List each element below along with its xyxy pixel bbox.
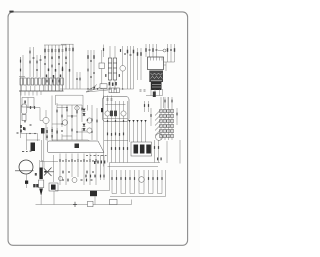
arrow tip down [39,189,43,197]
wire tr vert d [156,44,158,57]
electrolytic C17 [21,104,27,114]
resistor R12 [79,72,81,89]
IC U1 [148,57,164,70]
label box A [100,84,107,88]
diode D5 [83,124,86,127]
wire mid horiz [27,139,41,141]
wire antenna second [22,55,24,78]
coil L1 box [99,63,105,69]
resistor R57 [29,61,30,64]
resistor R70 [105,74,106,77]
resistor R14 [93,55,94,59]
wire fan c [86,90,108,92]
capacitor C13 [149,49,151,50]
wire center vert c [93,50,95,89]
capacitor C4 [55,45,57,91]
transistor Q6 [121,111,126,116]
transistor Q3 [62,120,67,125]
resistor R59 [103,45,105,58]
wire tie down [43,162,45,170]
module enclosure outline [56,95,84,110]
wire mid stub [27,107,40,109]
speck pairs upper [46,129,57,138]
resistor R63 [90,175,91,178]
wire cluster vert i [91,105,93,140]
wire cluster vert a [51,96,53,141]
output comb vert 11 [157,170,159,194]
label box B [109,88,120,93]
capacitor C12 [144,90,146,91]
connector box J2 [110,200,118,205]
node tie top2 [61,43,74,45]
wire dual drop a [41,140,43,162]
diode D2 [34,106,35,109]
pot VR1 dark core [51,185,56,190]
node tie row [106,104,126,106]
resistor R56 [62,67,63,70]
wire main bus [60,88,134,90]
resistor R67 [176,113,177,116]
capacitor C37 [62,179,64,180]
speck group mid bottom [94,161,105,165]
electrolytic C38 dark [153,92,156,98]
output comb vert 4 [125,170,127,194]
speck pair right [157,158,162,161]
resistor R27 [71,129,72,132]
row lower small d [92,171,94,172]
lamp LP1 [163,49,166,52]
resistor R18 [145,48,146,52]
capacitor C5 [62,45,64,91]
wire antenna tie [19,76,25,78]
wire comb right up [165,170,167,197]
dial pointer dark [75,144,80,149]
resistor R11 [72,44,74,89]
wire sw vert c [158,140,160,163]
wire cluster vert d [66,105,68,140]
wire cluster vert f [76,105,78,140]
capacitor C15 [170,49,172,50]
wire left bus down [20,91,22,138]
resistor R62 [85,175,86,178]
transistor Q9 [59,177,63,181]
wire sw vert b [154,140,156,163]
resistor R8 [52,80,53,83]
speaker SP1 stem [26,175,28,181]
capacitor C14 [156,49,158,50]
capacitor C28 [44,63,46,64]
resistor R50 [161,177,162,180]
wire tick [103,96,105,100]
resistor R55 [51,65,52,68]
switch SW1 segment 3 [146,145,151,154]
K1 divider [27,98,29,108]
jack node dot [44,171,46,173]
wire tr vert c [152,44,154,57]
row upper small f [89,160,91,161]
junction dots bus2 [109,88,123,89]
transistor Q5 [105,111,110,116]
wire drop b2 [107,116,109,162]
wire fan b [86,87,102,92]
resistor R61 [67,179,68,182]
output comb vert 10 [152,170,154,194]
wire ground bus [19,90,64,92]
wire drop b [107,96,109,111]
wire cluster vert c [61,105,63,127]
capacitor C2 [40,55,42,77]
transformer T2 windings [151,73,163,87]
wire U1 to T2 [164,64,167,66]
junction dots elbow [29,133,35,134]
transistor Q2 [43,117,49,123]
resistor R66 [171,100,172,103]
row upper small b [65,160,67,161]
resistor R29 [81,108,82,111]
resistor R51 [100,175,101,178]
switch block SW1 [131,142,152,156]
output comb vert 7 [138,170,140,194]
node tie top [44,44,66,46]
wire tr vert f [170,44,172,62]
wire link h2 [52,123,62,125]
resistor R32 [115,147,116,150]
capacitor C22 [71,116,73,117]
wire right drop a [163,97,165,108]
wire vert f [133,46,135,89]
terminal mark dark [101,108,103,112]
wire right riser [131,200,133,205]
resistor R36 [111,147,112,150]
resistor R13 [87,55,88,59]
wire link h3 [67,115,77,117]
junction dots mesh [61,107,92,133]
row lower small a [62,171,63,174]
terminal blob pair b [36,184,38,187]
output comb vert 1 [111,170,113,194]
capacitor C33 [90,76,92,77]
row upper small d [77,160,79,161]
IF transformer T1 [108,58,116,80]
resistor R20 [167,48,168,52]
diode D1 [30,106,31,109]
resistor R23 [24,128,25,131]
wire q2 base [39,108,41,121]
resistor R2 [33,47,35,77]
row upper small e [83,159,84,162]
wire bus joint left [109,163,111,191]
resistor R17 [133,50,134,54]
resistor R60 [20,69,21,72]
row upper small c [71,159,72,162]
wire tr vert g [174,44,176,62]
resistor R64 [94,175,95,178]
resistor R25 [61,115,62,118]
wire stem tail [26,184,28,188]
resistor R24 [56,110,57,113]
resistor R5 [51,45,53,91]
capacitor C25 [91,179,93,180]
row upper small a [59,159,60,162]
border frame [8,12,188,245]
wire cluster top tie [57,104,82,106]
resistor R10 [65,44,67,89]
diode D6 [83,128,86,131]
resistor R71 [119,74,120,77]
transformer T2 core upper [149,71,163,83]
wire drop d [115,101,117,163]
wire tr vert e [167,44,169,62]
capacitor C16 [153,92,155,93]
electrolytic C27 dark [114,111,117,117]
capacitor C31 [36,69,38,70]
resistor R16 [127,50,128,54]
resistor R47 [148,177,149,180]
diode D3 [83,109,86,112]
resistor R30 [91,119,92,122]
resistor R49 [157,177,158,180]
speck row mid drops [107,133,124,136]
wire cluster bottom bus [52,139,88,141]
resistor R53 [144,101,146,112]
wire vert d [127,46,129,89]
jack X contacts [44,168,54,177]
wire cluster vert b [56,103,58,140]
resistor group RN1 [44,56,66,59]
capacitor C32 [93,72,95,73]
connector J1 pin row [20,78,63,85]
comb bottom loops [112,193,162,195]
row small transistor Q7 [72,178,77,183]
wire tr vert a [145,44,147,57]
resistor R41 [111,177,112,180]
wire link h4 [77,131,87,133]
capacitor C7 [76,72,78,89]
capacitor C10 [130,54,132,55]
capacitor C35 [111,99,113,100]
wire cluster vert g [81,105,83,122]
relay stack S1 [160,110,174,138]
fuse mark plus [73,202,77,207]
wire cluster vert h [87,105,89,111]
resistor R21 [174,48,175,52]
wire stub pairs [47,127,57,141]
wire T1 leads [110,46,115,89]
junction dots row [107,120,124,121]
capacitor C1 [29,47,31,77]
resistor R39 [158,146,159,149]
wire bar down [40,196,42,205]
junction dots rows [62,160,93,161]
resistor R4 [44,45,46,91]
resistor R22 [24,120,25,123]
wire cluster vert e [71,105,73,140]
speck pair left [35,173,37,176]
wire left elbow [21,134,38,142]
ceramic cap C36 [22,115,26,121]
wire drop e [119,101,121,163]
wire cluster vert j [96,108,98,140]
electrolytic C26 dark [110,111,113,117]
resistor R33 [119,147,120,150]
speaker SP1 circle [19,160,33,174]
resistor R15 [120,49,121,52]
capacitor C9 [124,53,126,54]
transformer T2 core lower [151,82,162,90]
wire cluster jog g [81,128,83,140]
wire row base [104,118,128,120]
transistor Q8 [139,177,145,183]
ladder verts right of rows [101,155,105,180]
resistor R52 [103,175,104,178]
wire L1 leads [101,50,103,89]
resistor R42 [116,177,117,180]
wire vert e [130,46,132,89]
resistor R44 [125,177,126,180]
wire long drop a [103,89,105,167]
resistor R58 [87,69,88,72]
row lower small c [86,171,87,174]
output comb vert 2 [116,170,118,194]
output comb vert 3 [120,170,122,194]
resistor R1 [20,57,22,63]
wire link h5 [62,135,72,137]
wire drop c [111,96,113,163]
wire t3 down [94,196,96,204]
wire right col [176,108,178,125]
wire center vert a [87,50,89,89]
resistor R3 [36,55,38,77]
switch SW1 segment 1 [134,145,139,154]
output comb vert 12 [161,170,163,194]
capacitor C19 [17,132,19,133]
wire right drop b [167,97,169,108]
resistor R34 [123,147,124,150]
electrolytic C20 dark [31,143,36,152]
wire bottom long [36,204,132,206]
resistor R19 [152,48,153,52]
capacitor C8 [90,60,92,61]
box shield K1 [22,98,34,108]
row thread verts [60,154,96,186]
battery box B1 [88,201,94,206]
transistor Q1 [120,66,126,72]
capacitor C18 [30,124,32,125]
wire Q1 leads [122,46,124,89]
speaker terminal blob [25,181,28,184]
wire stack down [166,141,168,163]
electrolytic C23 dark bar [39,168,42,180]
page number [9,11,13,13]
wire tie right [164,61,175,63]
row lower small b [68,171,70,172]
terminal blob pair a [33,184,35,187]
capacitor C3 [48,45,50,91]
resistor R6 [58,45,60,91]
resistor R45 [129,177,130,180]
transformer T3 small dark [90,191,97,196]
wire stack feeds up [161,97,172,106]
IC U1 pins [151,57,163,61]
relay stack vert wires [161,106,172,140]
output comb vert 9 [148,170,150,194]
wire bar feed b [41,160,43,168]
dial cord box [48,141,105,153]
K1 speck [24,101,25,104]
pot VR1 [49,183,58,191]
resistor R9 [58,80,59,83]
wire link h1 [57,107,67,109]
wire diagonal to dial [88,140,100,148]
wire fan a [86,85,97,93]
transistor Q10 [87,128,92,133]
speck cluster left [20,125,24,133]
capacitor C24 [81,179,83,180]
resistor R43 [120,177,121,180]
wire mid vert [26,133,28,150]
text noise row [86,154,107,157]
diode D4 [83,113,86,116]
wire volume tie [40,161,58,163]
resistor R26 [66,109,67,112]
comb bottom bus [110,196,166,198]
T1 base blobs [109,82,117,86]
wire drop f2 [123,116,125,162]
connector J1 pins to bus [22,86,63,92]
wire q2 leads [40,110,46,140]
switch SW1 segment 2 [140,145,145,154]
transformer T2 leads [146,62,166,96]
capacitor C11 [140,90,142,91]
transistor Q11 [75,106,79,110]
capacitor C21 [61,130,63,131]
wire pot down [53,191,55,205]
resistor R40 [86,179,87,182]
label text specks [22,151,32,152]
capacitor C6 [69,44,71,89]
fan arrowhead [93,86,96,88]
wire bottom bus1 [55,190,110,192]
speaker SP1 chord [15,170,34,172]
capacitor C29 [58,63,60,64]
shield can outline [103,97,130,122]
resistor R28 [76,111,77,114]
wire c20b down [43,134,45,162]
resistor R31 [96,120,97,123]
relay stack wipers [155,110,160,135]
wire right edge drop [179,140,181,164]
wire center vert b [90,50,92,89]
wire dial to switch [104,140,128,142]
resistor R54 [148,101,150,112]
wire drop g [127,101,129,163]
wire antenna bus left [20,57,22,91]
resistor R37 [150,108,152,126]
wire stubs below bus [21,91,41,96]
fuse holder box [38,180,43,188]
output comb vert 6 [134,170,136,194]
capacitor C34 [107,99,109,100]
capacitor C20b dark [41,128,45,134]
resistor R68 [137,48,139,80]
diode arrow tops [128,120,146,122]
resistor R69 [140,48,142,80]
output comb vert 5 [129,170,131,194]
output comb vert 8 [143,170,145,194]
wire bar feed a [39,160,41,168]
resistor R7 [46,80,47,83]
resistor R65 [164,100,165,103]
